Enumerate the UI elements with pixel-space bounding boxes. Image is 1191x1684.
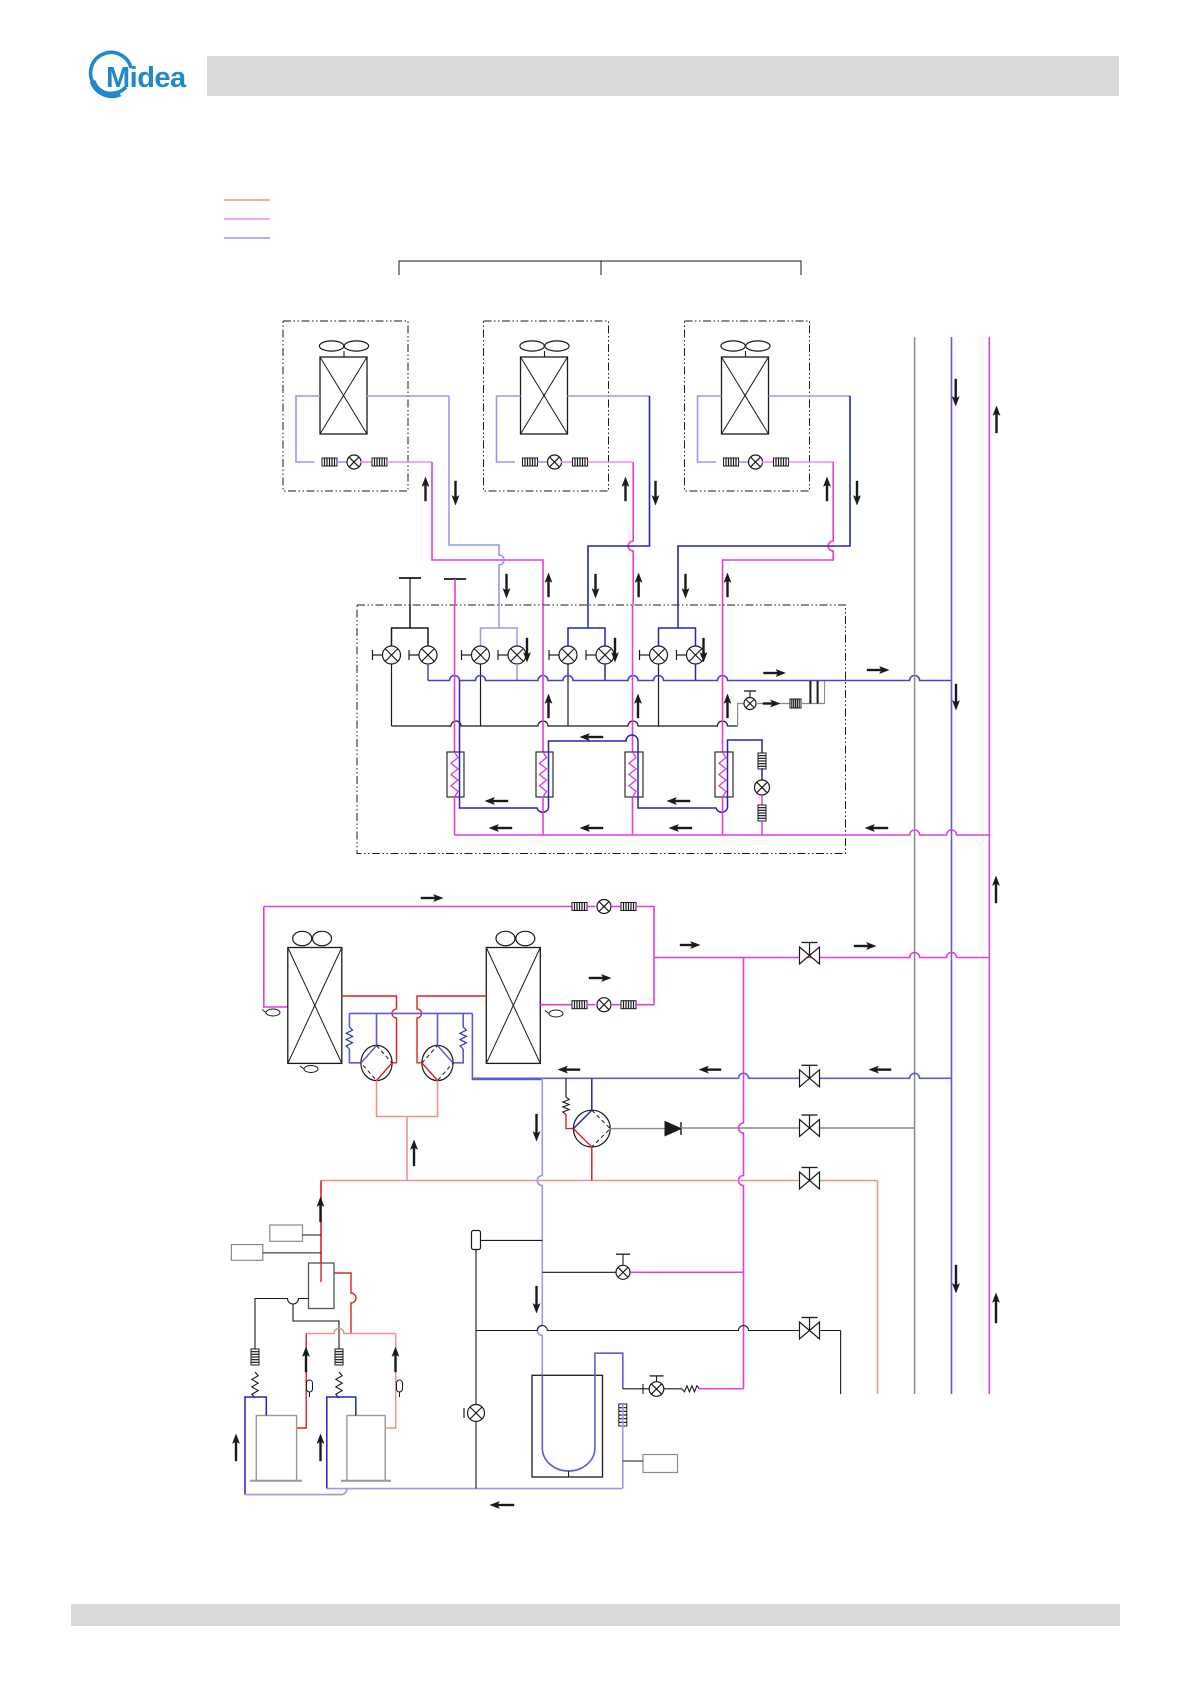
ODU2 heat exchanger	[521, 357, 568, 434]
HX loop valve	[597, 900, 611, 914]
MS valve SV4a	[650, 646, 668, 664]
riser to IDU liquid (gray)	[914, 337, 916, 1394]
bypass magenta	[631, 1271, 744, 1273]
label box	[270, 1225, 303, 1241]
temp sensor bulb	[397, 1380, 403, 1392]
discharge pipe (gray)	[681, 1127, 915, 1129]
MS valve SV3a	[559, 646, 577, 664]
compressor 1 body	[256, 1416, 296, 1481]
flow arrow down (gas)	[853, 481, 860, 505]
MS valve SV3b	[596, 646, 614, 664]
4-way valves common leg (red)	[377, 1081, 438, 1117]
HX pipe	[612, 906, 621, 908]
Midea logo	[91, 52, 187, 95]
oil balance drop	[840, 1331, 842, 1395]
flow arrow down	[952, 1265, 959, 1293]
ODU2 pipe strainer-to-EEV	[538, 461, 549, 463]
ODU2 gas drop (dark blue)	[588, 396, 650, 605]
oil return branch (black)	[293, 1304, 339, 1349]
ODU1 pipe EEV-to-strainer (magenta)	[361, 461, 373, 463]
flow arrow up	[724, 694, 731, 718]
ODU3 EEV valve	[749, 455, 763, 469]
HX2 hot gas pipe (red)	[417, 996, 486, 1063]
compressor 2 body	[347, 1416, 385, 1481]
HX pipe	[587, 906, 596, 908]
flow arrow down (gas)	[652, 481, 659, 505]
suction drop to accumulator (blue)	[537, 1078, 542, 1375]
flow arrow down (gas)	[452, 481, 459, 505]
magenta riser SC2 to header	[542, 797, 544, 835]
pair4 right valve drop	[695, 664, 697, 681]
plate HX2	[486, 948, 540, 1064]
pair3 feed drop	[587, 605, 589, 628]
hot-gas header (red)	[321, 1180, 878, 1182]
bowtie valve (LP gas)	[800, 1065, 820, 1087]
comp1 discharge (red)	[297, 1334, 307, 1429]
HX2 pipe to junction	[636, 1004, 654, 1006]
V2 gas leg to LP header (blue)	[472, 1013, 542, 1079]
ODU3 heat exchanger	[722, 357, 769, 434]
MS valve SV2a	[472, 646, 490, 664]
flow arrow up	[392, 1347, 399, 1372]
pair4 header pipe	[659, 628, 696, 646]
flow arrow right	[854, 942, 876, 949]
pair2 left valve drop (black)	[480, 664, 482, 726]
footer bar	[71, 1604, 1120, 1626]
oil separator vessel	[309, 1263, 335, 1309]
subcool pipe	[761, 795, 763, 806]
pair1 header pipe	[392, 628, 429, 646]
magenta hot-gas drop	[739, 1073, 744, 1389]
inlet magenta	[699, 1388, 743, 1390]
ODU3 liquid pipe left (blue)	[698, 396, 722, 462]
ODU1 gas drop (blue)	[449, 396, 494, 545]
pair3 header pipe	[568, 628, 605, 646]
ODU2 liquid drop (magenta)	[628, 462, 633, 605]
subcool pipe to liquid header	[761, 820, 763, 835]
flow arrow up (liquid)	[823, 477, 830, 501]
flow arrow up	[635, 573, 642, 597]
pair2 feed drop	[498, 605, 500, 628]
comp2 suction cap (blue)	[327, 1397, 356, 1489]
mode-switch box enclosure	[357, 605, 846, 854]
label box	[231, 1245, 262, 1261]
magenta drop to bowtie region	[743, 958, 745, 1074]
hot gas riser drop (red)	[877, 1181, 879, 1395]
oil balance line (black)	[476, 1326, 841, 1331]
ODU2 fan	[520, 341, 544, 351]
service strainer	[790, 699, 801, 708]
HX2 strainer	[572, 1001, 587, 1009]
flow arrow left	[490, 1501, 514, 1508]
subcooler SC1	[447, 752, 464, 797]
service port line B (magenta)	[454, 579, 456, 605]
MS valve SV1a	[383, 646, 401, 664]
inlet spring	[682, 1386, 699, 1392]
ODU3 strainer left	[724, 458, 739, 466]
flow arrow up	[317, 1434, 324, 1461]
flow arrow up	[545, 573, 552, 597]
ODU1 gas pipe (blue)	[367, 395, 449, 397]
ODU1 strainer right	[372, 458, 387, 466]
ODU3 fan	[721, 341, 745, 351]
compressor suction spring	[563, 1097, 569, 1115]
flow arrow up	[232, 1434, 239, 1461]
subcool pipe SC4-EEV	[728, 740, 763, 754]
oil separator feed (red)	[320, 1181, 322, 1264]
flow arrow left	[699, 1066, 721, 1073]
magenta drop to SC2	[542, 605, 544, 752]
accumulator tank	[532, 1375, 603, 1477]
HX1 hot gas pipe (red)	[342, 996, 397, 1063]
V2 top leg	[437, 1013, 439, 1045]
flow arrow up	[724, 573, 731, 597]
HX2 fan	[496, 931, 515, 945]
oil separator out (red)	[334, 1273, 356, 1334]
4-way valve V1	[361, 1045, 392, 1080]
flow arrow left	[558, 1066, 580, 1073]
flow arrow right	[764, 669, 786, 676]
subcool pipe SC3-SC4	[638, 797, 728, 812]
ODU2 gas pipe (blue)	[568, 395, 650, 397]
ODU3 gas drop (dark blue)	[678, 396, 850, 605]
V1 left leg lower	[349, 1049, 361, 1063]
V2 right leg	[462, 1013, 464, 1027]
MS valve SV1b	[419, 646, 437, 664]
flow arrow down	[700, 638, 707, 662]
ODU3 liquid drop (magenta)	[723, 462, 834, 605]
flow arrow up	[302, 1347, 309, 1372]
flow arrow left	[580, 733, 603, 740]
pair4 feed drop	[677, 605, 679, 628]
flow arrow down	[592, 574, 599, 598]
service pipe to separator plates	[801, 703, 825, 705]
flow arrow up	[992, 1293, 999, 1323]
flow arrow down	[611, 638, 618, 662]
ODU1 strainer left	[322, 458, 337, 466]
label box	[643, 1455, 678, 1473]
service port line A (black)	[409, 605, 411, 628]
flow arrow left	[485, 797, 508, 804]
drain line (black)	[475, 1250, 477, 1405]
ODU2 strainer left	[523, 458, 538, 466]
4-way valve bridge (blue)	[349, 1012, 472, 1014]
pair4 left valve drop (black)	[658, 664, 660, 726]
legend line liquid (red)	[224, 199, 270, 201]
service port cap B	[444, 578, 466, 580]
magenta drop to SC3	[632, 605, 634, 752]
pair1 left valve drop (black)	[391, 664, 393, 726]
4-way valve V2	[422, 1045, 453, 1080]
svg-text:Midea: Midea	[106, 62, 187, 94]
flow arrow left	[865, 824, 888, 831]
HX loop branch (magenta)	[654, 953, 989, 958]
HX2 valve	[597, 998, 611, 1012]
ODU1 pipe strainer-to-EEV	[337, 461, 348, 463]
LP gas header (blue)	[428, 676, 952, 681]
drain line lower	[475, 1422, 477, 1489]
compressor top leg (blue)	[591, 1078, 593, 1110]
legend line HP gas (magenta)	[224, 218, 270, 220]
hot gas U pipe (red)	[306, 1329, 396, 1334]
flow arrow down	[503, 574, 510, 598]
V1 top leg	[376, 1013, 378, 1045]
magenta riser SC4 to header	[722, 797, 724, 835]
subcooler SC4	[715, 752, 733, 797]
magenta drop to SC1	[454, 605, 456, 752]
oil spring	[252, 1372, 258, 1398]
dimension bracket	[399, 261, 801, 275]
header bar	[207, 56, 1119, 96]
flow arrow up (liquid)	[422, 477, 429, 501]
oil strainer	[335, 1349, 343, 1365]
flow arrow right	[763, 700, 780, 707]
subcool pipe	[761, 768, 763, 780]
flow arrow down	[952, 684, 959, 710]
oil strainer	[251, 1349, 259, 1365]
compressor discharge leg (red)	[591, 1147, 593, 1181]
inlet valve pipe	[664, 1388, 682, 1390]
black header	[392, 721, 738, 726]
flow arrow down	[952, 379, 959, 406]
outdoor unit ODU2 enclosure	[484, 321, 609, 491]
temp sensor	[549, 1010, 563, 1017]
V2 right leg lower	[453, 1049, 463, 1063]
HX2 strainer	[621, 1001, 636, 1009]
ODU1 liquid pipe out (magenta)	[387, 461, 432, 463]
flow arrow up	[992, 876, 999, 903]
oil spring	[336, 1372, 342, 1398]
outdoor unit ODU1 enclosure	[283, 321, 408, 491]
flow arrow up	[410, 1140, 417, 1166]
bypass valve	[616, 1265, 630, 1279]
riser to IDU HP gas (magenta)	[988, 337, 990, 1394]
ODU3 pipe EEV-to-strainer (magenta)	[762, 461, 774, 463]
flow arrow left	[869, 1066, 891, 1073]
ODU1 liquid riser (magenta)	[432, 462, 543, 605]
separator plates	[809, 681, 811, 704]
compressor suction spring branch	[565, 1078, 567, 1097]
service port cap A	[399, 577, 421, 579]
temp sensor bulb	[307, 1380, 313, 1392]
HX pipe	[587, 1004, 596, 1006]
ODU2 liquid pipe left (blue)	[497, 396, 521, 462]
HX pipe	[612, 1004, 621, 1006]
pair1 right valve drop	[427, 664, 429, 681]
temp sensor	[304, 1066, 318, 1073]
check valve	[665, 1122, 681, 1136]
discharge pipe (gray)	[610, 1128, 665, 1130]
HX loop strainer	[572, 903, 587, 911]
liquid header (magenta)	[455, 830, 990, 835]
flow arrow left	[580, 824, 603, 831]
bypass line (black+magenta)	[542, 1271, 616, 1273]
suction return line (blue)	[327, 1488, 622, 1490]
comp2 discharge (red)	[385, 1334, 396, 1429]
subcool pipe SC2-SC3	[549, 735, 639, 752]
service valve	[744, 698, 756, 710]
drain capsule	[472, 1231, 481, 1250]
magenta riser SC1 to header	[454, 797, 456, 835]
ODU1 fan	[319, 341, 343, 351]
flow arrow up	[545, 694, 552, 718]
flow arrow up	[634, 694, 641, 718]
temp sensor	[266, 1009, 280, 1016]
magenta riser SC3 to header	[632, 797, 634, 835]
ODU2 pipe EEV-to-strainer (magenta)	[561, 461, 573, 463]
flow arrow down	[682, 574, 689, 598]
oil service pipe (black)	[738, 704, 744, 727]
magenta drop to SC4	[722, 605, 724, 752]
ODU2 strainer right	[573, 458, 588, 466]
subcool EEV valve	[755, 780, 770, 795]
compressor	[573, 1110, 610, 1147]
ODU1 heat exchanger	[320, 357, 367, 434]
HX loop top pipe (magenta)	[264, 906, 572, 908]
HX2 right pipe	[540, 1004, 571, 1006]
subcool pipe SC1-SC2	[460, 797, 549, 812]
MS valve SV2b	[508, 646, 526, 664]
flow arrow left	[667, 797, 690, 804]
accumulator strainer	[619, 1404, 627, 1426]
ODU1 EEV valve	[347, 455, 361, 469]
subcool tap SC1	[459, 681, 461, 753]
pair2 header pipe	[481, 628, 518, 646]
flow arrow right	[421, 894, 443, 901]
V2 capillary	[460, 1027, 466, 1049]
V1 capillary	[346, 1027, 352, 1049]
oil return pipe (black)	[255, 1299, 309, 1350]
4-way valve V1 left leg	[348, 1013, 350, 1027]
flow arrow right	[867, 666, 889, 673]
ODU1 liquid pipe left (blue)	[296, 396, 320, 462]
flow arrow down	[523, 638, 530, 662]
comp1 suction cap (blue)	[245, 1397, 266, 1495]
accumulator drain tick	[568, 1471, 570, 1477]
ODU3 pipe strainer-to-EEV	[739, 461, 750, 463]
compressor suction lower (red)	[566, 1115, 574, 1129]
accumulator U pipe (blue)	[542, 1353, 623, 1471]
flow arrow up	[317, 1197, 324, 1222]
flow arrow right	[680, 941, 700, 948]
riser to IDU LP gas (blue)	[951, 337, 953, 1394]
ODU2 liquid pipe out (magenta)	[588, 461, 633, 463]
drain valve	[468, 1405, 485, 1422]
pair1 feed drop	[409, 605, 411, 628]
bowtie valve (oil)	[800, 1318, 820, 1340]
legend line LP gas (blue)	[224, 237, 270, 239]
pair2 right valve drop	[516, 664, 518, 681]
bowtie valve (discharge)	[800, 1115, 820, 1137]
subcool strainer upper	[758, 753, 766, 769]
HX1 fan	[293, 931, 312, 945]
ODU2 EEV valve	[548, 455, 562, 469]
pair3 left valve drop (black)	[567, 664, 569, 726]
ODU1 gas drop crossing	[494, 545, 504, 605]
service pipe	[756, 703, 790, 705]
accumulator outlet (blue)	[622, 1404, 624, 1489]
outdoor unit ODU3 enclosure	[685, 321, 810, 491]
subcool strainer lower	[758, 805, 766, 821]
ODU3 gas pipe (blue)	[769, 395, 851, 397]
flow arrow up	[993, 406, 1000, 433]
HX loop strainer	[621, 903, 636, 911]
subcooler SC3	[625, 752, 643, 797]
comp1 suction run (blue)	[245, 1489, 347, 1495]
ODU3 liquid pipe out (magenta)	[789, 461, 834, 463]
flow arrow left	[669, 824, 692, 831]
flow arrow right	[589, 974, 611, 981]
accumulator inlet valve	[649, 1382, 664, 1397]
subcooler SC2	[536, 752, 553, 797]
flow arrow down	[533, 1286, 540, 1313]
capsule link (black)	[481, 1239, 543, 1241]
HX loop right pipe (magenta)	[636, 907, 654, 1005]
flow arrow up (liquid)	[622, 477, 629, 501]
MS valve SV4b	[687, 646, 705, 664]
pair3 right valve drop	[604, 664, 606, 681]
HX loop left drop (magenta)	[264, 907, 288, 1008]
common drop to discharge header	[406, 1117, 408, 1181]
bowtie valve (HP gas)	[800, 943, 820, 965]
flow arrow down	[533, 1114, 540, 1141]
LP suction header (blue)	[472, 1073, 951, 1078]
ODU3 strainer right	[774, 458, 789, 466]
flow arrow left	[489, 824, 512, 831]
plate HX1	[288, 948, 342, 1064]
bowtie valve (hot gas)	[800, 1168, 820, 1190]
